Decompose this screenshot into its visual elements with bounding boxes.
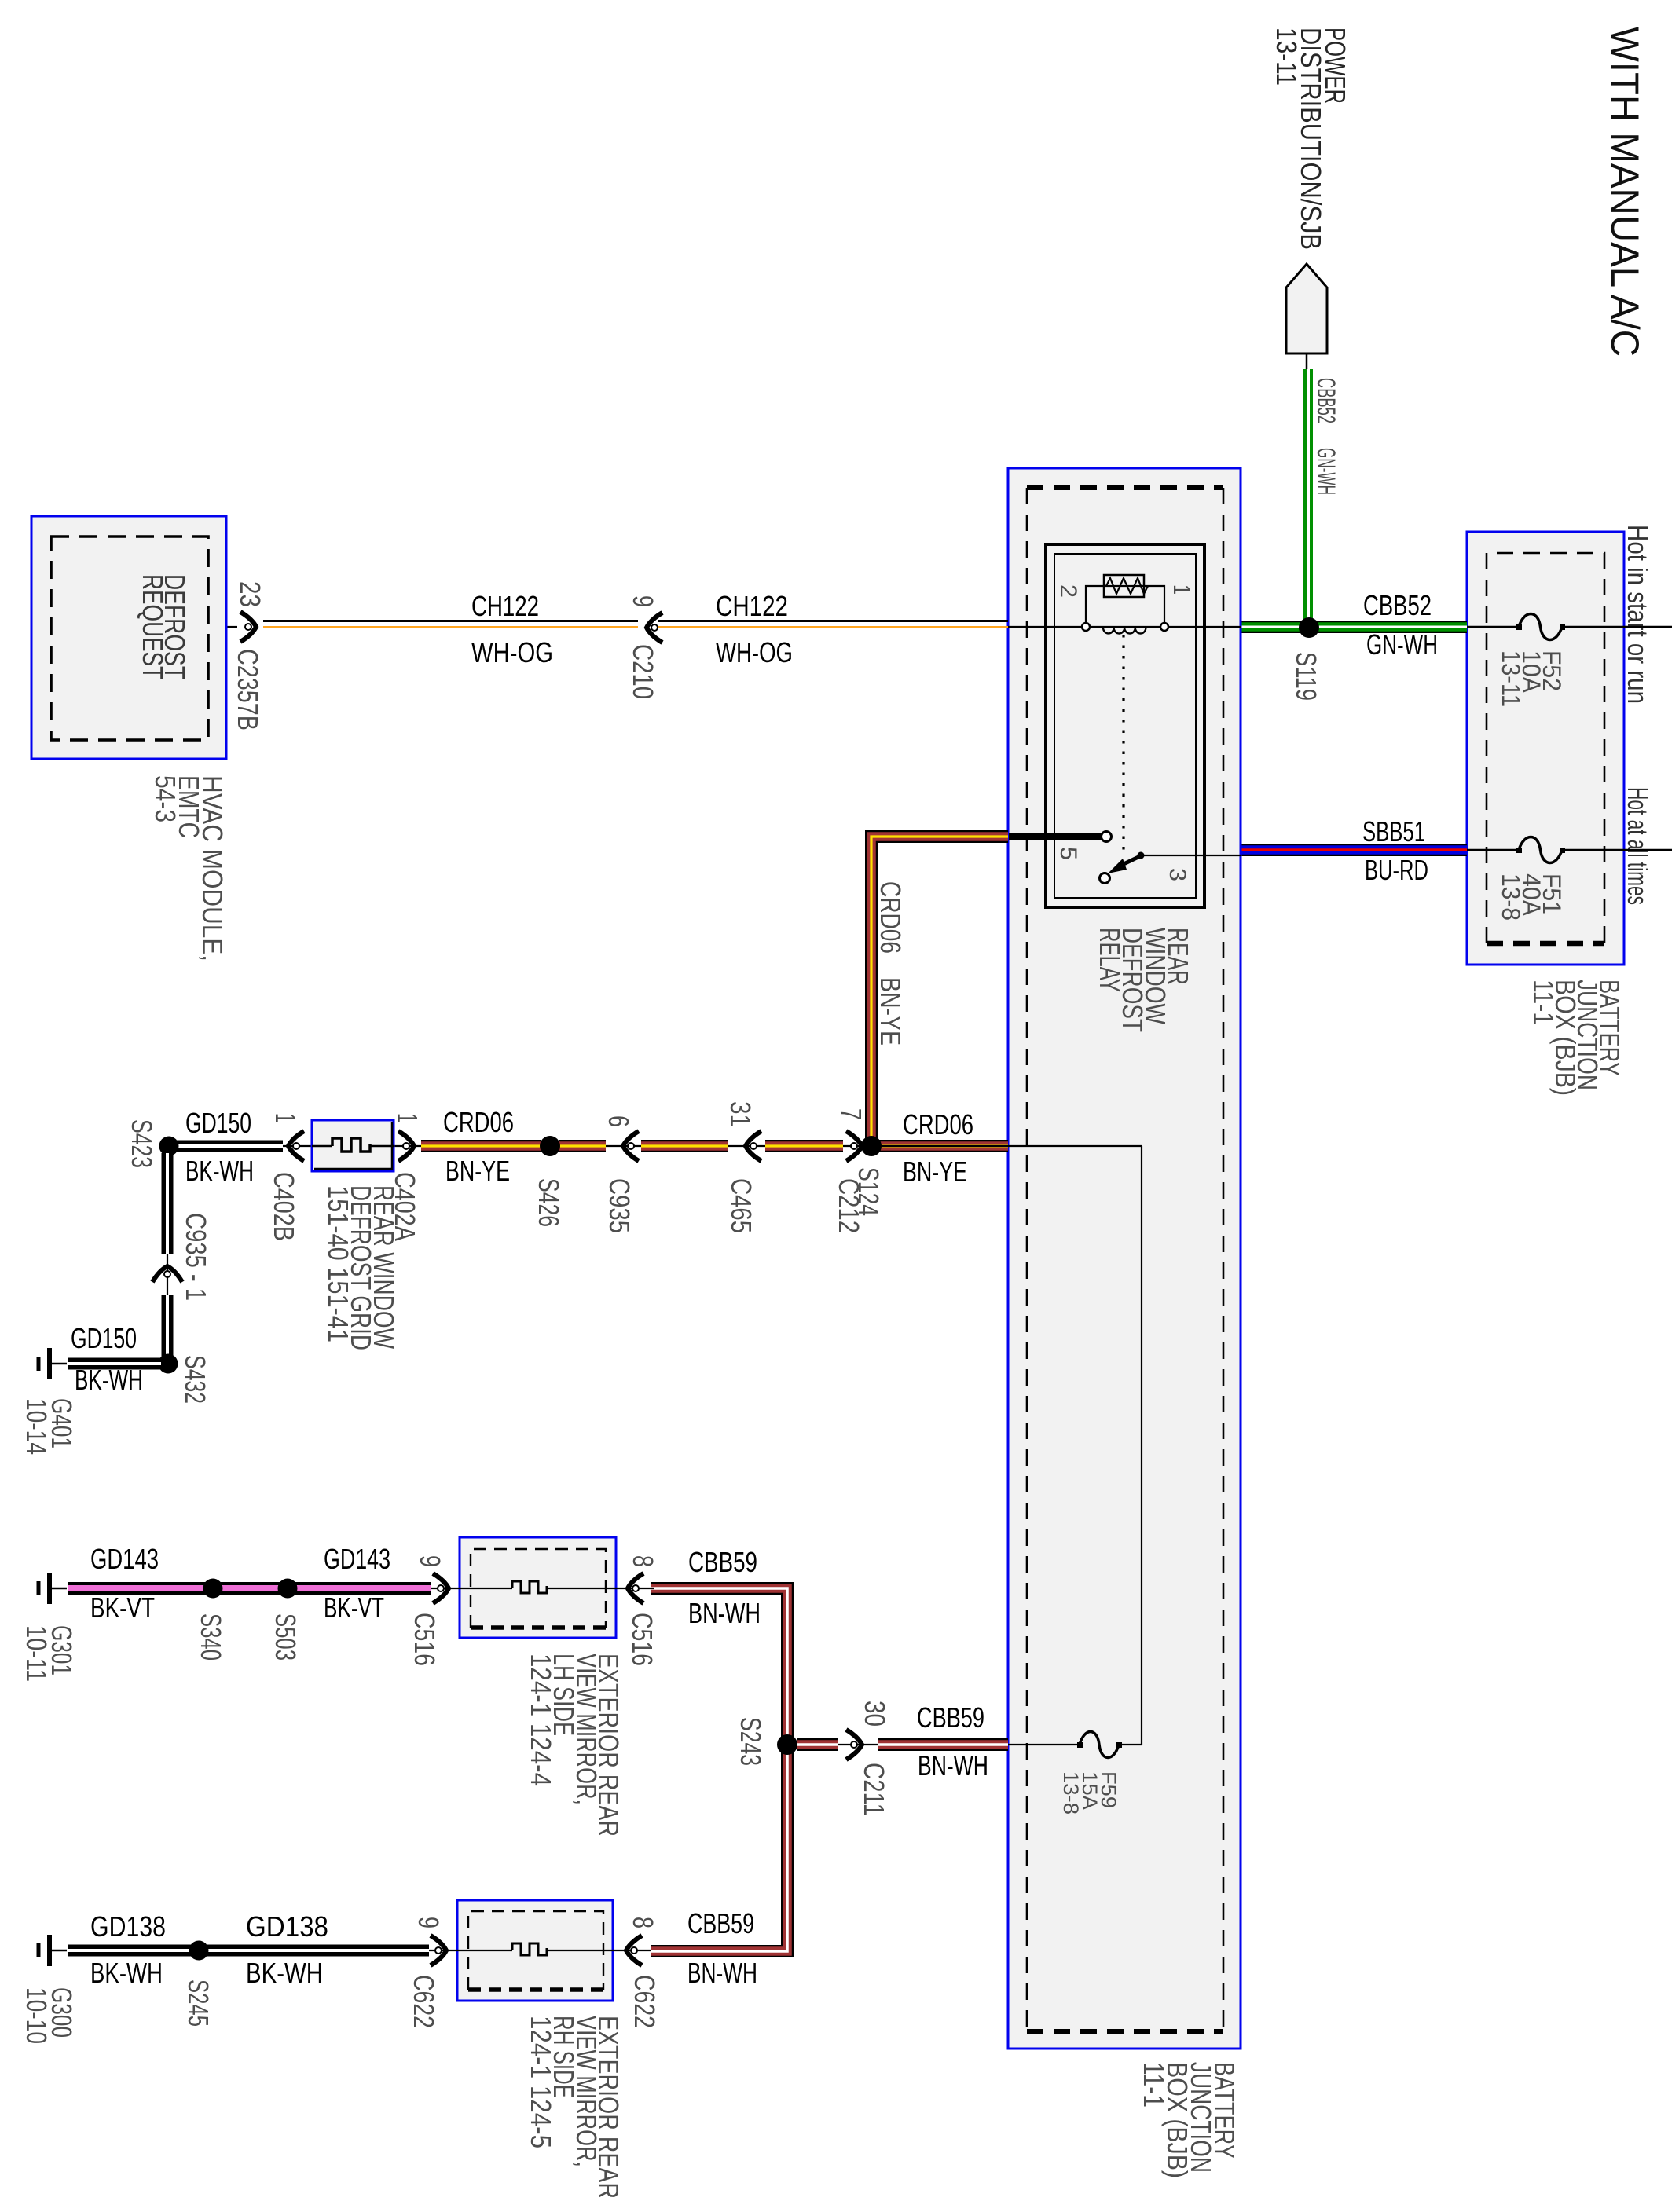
svg-text:C212: C212: [833, 1178, 865, 1233]
svg-text:CH122: CH122: [716, 590, 788, 622]
svg-text:SBB51: SBB51: [1362, 815, 1425, 848]
wire BK-WH down segment 2: [162, 1295, 174, 1357]
wire stub from HVAC module pin 23: [226, 626, 237, 628]
label pin 1 (C402A): [391, 1113, 423, 1122]
relay switch blade: [1100, 856, 1141, 884]
label relay pin 1: [1168, 584, 1194, 595]
svg-text:S423: S423: [126, 1119, 158, 1168]
relay actuation dotted line: [1122, 635, 1124, 856]
wire inside BJB F59 to edge: [1008, 1744, 1142, 1745]
wire SBB51 BU-RD from BJB to fuse box: [1241, 844, 1467, 856]
label C622 (left): [408, 1975, 440, 2028]
fuse F52: [1516, 614, 1565, 640]
ground G401: [38, 1348, 67, 1379]
relay box (rear window defrost relay): [1046, 544, 1204, 907]
wire thin line at C516-9: [431, 1588, 460, 1589]
svg-text:BK-VT: BK-VT: [324, 1591, 384, 1624]
svg-text:BK-VT: BK-VT: [90, 1591, 155, 1624]
label fuse F51 40A 13-8: [1497, 873, 1566, 921]
label S423: [126, 1119, 158, 1168]
off-page connector (pentagon) POWER DISTRIBUTION/SJB: [1286, 264, 1327, 371]
label C402A: [389, 1172, 421, 1241]
relay pin 5 wire: [1009, 833, 1101, 840]
wire CRD06 BN-YE C465 to C212: [765, 1140, 843, 1152]
wire CBB52 GN-WH vertical from pentagon to S119: [1303, 369, 1313, 622]
svg-text:GD138: GD138: [90, 1910, 166, 1943]
connector C622 pin 9 arrow: [431, 1935, 446, 1965]
connector C935 arrow: [623, 1131, 639, 1161]
label CH122 WH-OG (1): [471, 590, 553, 668]
svg-text:BU-RD: BU-RD: [1365, 854, 1428, 886]
wire thin line at C622-8: [613, 1950, 651, 1951]
svg-text:BK-WH: BK-WH: [90, 1957, 163, 1989]
junction S243: [777, 1734, 797, 1755]
label CRD06 BN-YE (at S124): [903, 1108, 973, 1188]
svg-text:CBB52: CBB52: [1312, 378, 1340, 423]
wire CRD06 BN-YE S426 to C935: [559, 1140, 606, 1152]
svg-text:151-40 151-41: 151-40 151-41: [322, 1185, 354, 1342]
svg-text:GD150: GD150: [71, 1322, 137, 1354]
svg-text:RELAY: RELAY: [1094, 928, 1126, 992]
wire CH122 WH-OG segment 2: [658, 621, 1008, 628]
svg-text:Hot at all times: Hot at all times: [1622, 787, 1654, 905]
svg-text:1: 1: [1168, 584, 1194, 595]
label C212: [833, 1178, 865, 1233]
connector C935-1 arrow: [152, 1266, 182, 1282]
label BATTERY JUNCTION BOX (BJB) 11-1 (fuse box): [1527, 980, 1626, 1096]
svg-text:S340: S340: [195, 1613, 227, 1661]
label CBB52 GN-WH (vertical wire): [1312, 378, 1340, 495]
RH mirror dashed inner: [468, 1911, 603, 1990]
label CRD06 BN-YE (chain): [443, 1106, 514, 1187]
svg-text:CBB59: CBB59: [688, 1546, 757, 1578]
svg-text:BK-WH: BK-WH: [246, 1957, 323, 1989]
LH mirror heater element: [460, 1581, 616, 1593]
connector C210 arrow: [647, 613, 662, 643]
label fuse F59 15A 13-8: [1059, 1771, 1120, 1815]
label relay pin 2: [1055, 584, 1081, 598]
connector C212 arrow: [846, 1131, 862, 1161]
relay coil parallel stubs: [1086, 586, 1164, 623]
wire thin line at C622-9: [429, 1950, 457, 1951]
label REAR WINDOW DEFROST GRID 151-40 151-41: [322, 1185, 400, 1350]
label S124: [852, 1167, 885, 1216]
svg-text:6: 6: [603, 1115, 635, 1127]
svg-text:GD138: GD138: [246, 1910, 328, 1943]
label pin 31 (C465): [724, 1101, 757, 1127]
relay coil resistor box: [1104, 575, 1148, 597]
svg-text:BK-WH: BK-WH: [75, 1364, 143, 1396]
junction S340: [203, 1579, 223, 1599]
wire CRD06 BN-YE S124 to BJB: [871, 1140, 1008, 1152]
svg-text:C516: C516: [626, 1613, 658, 1666]
svg-text:BN-YE: BN-YE: [445, 1155, 510, 1187]
svg-text:GD143: GD143: [90, 1543, 159, 1575]
HVAC module dashed inner: [51, 537, 208, 740]
label C935 - 1: [180, 1213, 212, 1301]
label C2357B: [232, 649, 264, 731]
svg-text:23: 23: [234, 581, 266, 607]
svg-text:9: 9: [627, 595, 659, 607]
svg-text:30: 30: [859, 1701, 891, 1727]
svg-text:7: 7: [835, 1108, 867, 1120]
connector C402A arrow: [398, 1131, 414, 1161]
svg-text:WITH MANUAL A/C: WITH MANUAL A/C: [1603, 27, 1647, 357]
wire thin line at C935-1: [167, 1254, 168, 1295]
label S119: [1290, 652, 1322, 701]
label pin 8 (C622): [627, 1917, 659, 1928]
junction S426: [540, 1136, 560, 1156]
svg-text:3: 3: [1164, 868, 1190, 881]
exterior rear view mirror RH box: [457, 1900, 613, 2001]
RH mirror heater element: [457, 1943, 613, 1955]
label pin 7 (C212): [835, 1108, 867, 1120]
label C402B: [268, 1172, 300, 1241]
svg-text:S426: S426: [533, 1178, 565, 1227]
wire thin line under defrost grid chain: [169, 1145, 1008, 1147]
label EXTERIOR REAR VIEW MIRROR RH SIDE 124-1 124-5: [525, 2016, 625, 2199]
svg-text:WH-OG: WH-OG: [471, 636, 553, 668]
label GD143 BK-VT (1): [90, 1543, 159, 1624]
wire fuse F51 line: [1467, 849, 1672, 851]
wire GD150 BK-WH C402B to S423: [174, 1141, 283, 1152]
svg-text:9: 9: [414, 1555, 446, 1567]
connector C516 pin 8 arrow: [628, 1573, 643, 1603]
relay coil windings: [1103, 628, 1146, 634]
wire CBB59 BN-WH C211 to BJB: [878, 1738, 1008, 1751]
connector C516 pin 9 arrow: [433, 1573, 449, 1603]
label CBB59 BN-WH (LH): [688, 1546, 761, 1629]
label Hot in start or run: [1622, 525, 1654, 704]
svg-text:54-3: 54-3: [149, 775, 181, 822]
label C465: [725, 1178, 757, 1233]
junction S503: [278, 1579, 298, 1599]
svg-text:BN-YE: BN-YE: [903, 1155, 967, 1188]
svg-text:10-10: 10-10: [20, 1987, 53, 2044]
svg-text:2: 2: [1055, 584, 1081, 598]
wire relay pin 3 to BJB edge: [1141, 855, 1241, 856]
svg-text:C210: C210: [627, 644, 659, 699]
svg-text:C935 - 1: C935 - 1: [180, 1213, 212, 1301]
label G300 10-10: [20, 1987, 78, 2044]
svg-text:CBB59: CBB59: [687, 1907, 754, 1939]
label pin 8 (C516): [627, 1555, 659, 1567]
ground G300: [38, 1935, 67, 1966]
label C622 (right): [629, 1975, 661, 2028]
label SBB51 BU-RD: [1362, 815, 1428, 886]
wire CRD06 BN-YE relay to S124: [871, 837, 1008, 1146]
label CRD06 BN-YE (vertical): [874, 881, 907, 1046]
label BATTERY JUNCTION BOX (BJB) 11-1 (tall box): [1138, 2062, 1241, 2178]
label C210: [627, 644, 659, 699]
svg-text:BN-WH: BN-WH: [918, 1749, 988, 1782]
label CBB52 GN-WH (horizontal): [1363, 589, 1438, 661]
wire CH122 WH-OG segment 1: [263, 621, 638, 628]
label pin 1 (C402B): [269, 1113, 302, 1122]
svg-text:S432: S432: [179, 1355, 211, 1404]
svg-text:11-1: 11-1: [1138, 2062, 1170, 2108]
label S243: [735, 1717, 767, 1766]
label CBB59 BN-WH (RH): [687, 1907, 757, 1989]
label GD138 BK-WH (1): [90, 1910, 166, 1989]
svg-text:C622: C622: [408, 1975, 440, 2028]
exterior rear view mirror LH box: [460, 1537, 616, 1638]
svg-text:10-11: 10-11: [20, 1625, 53, 1682]
label REAR WINDOW DEFROST RELAY: [1094, 928, 1194, 1032]
relay coil terminal pin 1: [1160, 623, 1168, 631]
svg-text:BN-WH: BN-WH: [687, 1957, 757, 1989]
label S245: [182, 1979, 214, 2027]
svg-text:10-14: 10-14: [20, 1398, 53, 1455]
svg-text:8: 8: [627, 1555, 659, 1567]
wire thin line at C516-8: [616, 1588, 654, 1589]
label S432: [179, 1355, 211, 1404]
wire thin line at C211: [838, 1744, 880, 1745]
label relay pin 3: [1164, 868, 1190, 881]
svg-text:BN-WH: BN-WH: [688, 1597, 761, 1629]
connector C465 arrow: [746, 1131, 761, 1161]
svg-text:CBB59: CBB59: [917, 1701, 984, 1734]
relay switch fixed contact pin 3: [1138, 852, 1145, 859]
wire CBB59 BN-WH S243 to C211: [797, 1738, 838, 1751]
svg-text:CBB52: CBB52: [1363, 589, 1432, 621]
svg-text:WH-OG: WH-OG: [716, 636, 793, 668]
label C516 (left): [409, 1613, 441, 1666]
wire CRD06 BN-YE C402A to S426: [421, 1140, 541, 1152]
label GD143 BK-VT (2): [324, 1543, 390, 1624]
label pin 30 (C211): [859, 1701, 891, 1727]
label pin 6 (C935): [603, 1115, 635, 1127]
svg-text:8: 8: [627, 1917, 659, 1928]
svg-text:13-8: 13-8: [1059, 1771, 1083, 1815]
wire GD138 BK-WH ground to C622: [68, 1945, 429, 1957]
junction S119: [1299, 617, 1319, 638]
LH mirror dashed inner: [471, 1549, 606, 1628]
connector C2357B arrow: [240, 612, 256, 642]
fuse F51: [1516, 837, 1565, 863]
label DEFROST REQUEST: [137, 574, 191, 679]
title WITH MANUAL A/C: [1603, 27, 1647, 357]
junction S245: [189, 1941, 209, 1961]
svg-text:C516: C516: [409, 1613, 441, 1666]
svg-text:S245: S245: [182, 1979, 214, 2027]
relay coil terminal pin 2: [1082, 623, 1090, 631]
svg-text:9: 9: [412, 1917, 445, 1928]
wire GD150 BK-WH S432 to ground: [68, 1358, 161, 1370]
label POWER DISTRIBUTION/SJB 13-11: [1270, 27, 1351, 250]
label pin 9 (C622): [412, 1917, 445, 1928]
label GD138 BK-WH (2): [246, 1910, 328, 1989]
wire CBB59 BN-WH LH mirror to S243 to RH mirror: [651, 1588, 787, 1951]
svg-text:CRD06: CRD06: [874, 881, 907, 954]
wire CRD06 BN-YE C935 to C465: [641, 1140, 728, 1152]
svg-text:31: 31: [724, 1101, 757, 1127]
wire inside BJB from S124 to F59 riser: [1008, 1146, 1142, 1745]
svg-text:124-1 124-5: 124-1 124-5: [525, 2016, 557, 2148]
svg-text:1: 1: [391, 1113, 423, 1122]
svg-text:GD143: GD143: [324, 1543, 390, 1575]
svg-text:1: 1: [269, 1113, 302, 1122]
label CBB59 BN-WH (at BJB): [917, 1701, 988, 1782]
svg-text:S503: S503: [269, 1613, 302, 1661]
junction S124: [861, 1136, 882, 1156]
label Hot at all times: [1622, 787, 1654, 905]
svg-text:CH122: CH122: [471, 590, 539, 622]
label pin 23: [234, 581, 266, 607]
svg-text:CRD06: CRD06: [903, 1108, 973, 1141]
label C516 (right): [626, 1613, 658, 1666]
svg-text:C402B: C402B: [268, 1172, 300, 1241]
label pin 9 (C210): [627, 595, 659, 607]
battery junction box (BJB) fuse box: [1467, 532, 1624, 965]
svg-text:C935: C935: [603, 1178, 636, 1233]
connector C622 pin 8 arrow: [626, 1935, 642, 1965]
junction S423: [159, 1137, 179, 1156]
svg-text:5: 5: [1055, 847, 1081, 860]
svg-text:C465: C465: [725, 1178, 757, 1233]
svg-text:CRD06: CRD06: [443, 1106, 514, 1138]
HVAC module box: [31, 516, 226, 759]
svg-text:C2357B: C2357B: [232, 649, 264, 731]
label pin 9 (C516): [414, 1555, 446, 1567]
svg-text:BN-YE: BN-YE: [874, 977, 907, 1046]
svg-text:GD150: GD150: [185, 1107, 251, 1139]
BJB tall box dashed inner: [1027, 488, 1223, 2031]
svg-text:13-8: 13-8: [1497, 873, 1525, 921]
svg-text:GN-WH: GN-WH: [1366, 628, 1438, 661]
BJB fuse box dashed inner: [1487, 553, 1604, 943]
svg-text:BK-WH: BK-WH: [185, 1155, 254, 1187]
junction S432: [159, 1354, 178, 1374]
svg-text:C622: C622: [629, 1975, 661, 2028]
label G401 10-14: [20, 1398, 78, 1455]
label relay pin 5: [1055, 847, 1081, 860]
label CH122 WH-OG (2): [716, 590, 793, 668]
label HVAC MODULE, EMTC 54-3: [149, 775, 229, 961]
label S503: [269, 1613, 302, 1661]
connector C211 arrow: [846, 1730, 862, 1760]
battery junction box (BJB) tall box: [1008, 468, 1241, 2049]
defrost grid resistor element: [312, 1138, 394, 1152]
label S340: [195, 1613, 227, 1661]
svg-text:S243: S243: [735, 1717, 767, 1766]
svg-text:Hot in start or run: Hot in start or run: [1622, 525, 1654, 704]
label EXTERIOR REAR VIEW MIRROR LH SIDE 124-1 124-4: [525, 1654, 625, 1837]
label GD150 BK-WH (bottom): [71, 1322, 143, 1396]
fuse F59: [1077, 1732, 1122, 1758]
wire BK-WH S423 down segment 1: [162, 1153, 174, 1254]
wire GD143 BK-VT ground to C516: [68, 1582, 431, 1595]
label C211: [858, 1763, 890, 1816]
label G301 10-11: [20, 1625, 78, 1682]
wire CBB52 GN-WH from BJB to fuse box: [1241, 621, 1467, 633]
svg-text:124-1 124-4: 124-1 124-4: [525, 1654, 557, 1786]
svg-text:13-11: 13-11: [1270, 27, 1303, 86]
svg-text:C211: C211: [858, 1763, 890, 1816]
label fuse F52 10A 13-11: [1497, 650, 1566, 707]
svg-text:GN-WH: GN-WH: [1312, 448, 1340, 495]
ground G301: [38, 1573, 67, 1604]
svg-text:S119: S119: [1290, 652, 1322, 701]
connector C402B arrow: [288, 1131, 304, 1161]
rear window defrost grid box: [312, 1120, 394, 1171]
label S426: [533, 1178, 565, 1227]
svg-text:13-11: 13-11: [1497, 650, 1525, 707]
label GD150 BK-WH (top): [185, 1107, 254, 1187]
svg-text:11-1: 11-1: [1527, 980, 1560, 1025]
wire fuse F52 line: [1467, 626, 1672, 628]
label C935: [603, 1178, 636, 1233]
svg-text:REQUEST: REQUEST: [137, 574, 169, 679]
relay pin 5 terminal: [1102, 832, 1112, 842]
wire coil feed line through relay: [1008, 626, 1241, 628]
